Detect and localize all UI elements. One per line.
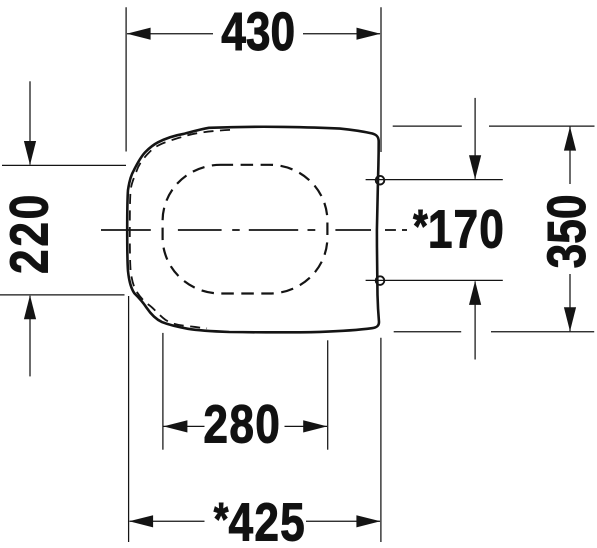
horizontal centerline (dash-dot): [101, 229, 407, 231]
dimension 280: extension lines: [163, 333, 328, 450]
dimension 350: dimension line: [569, 127, 571, 184]
dimension 350: arrowheads: [564, 127, 576, 151]
dimension 220: arrowheads: [24, 141, 36, 165]
dimension *170: dimension lines through hinges: [366, 98, 503, 360]
seat ring hidden edge (dashed): [130, 130, 230, 328]
hinge circle bottom: [376, 276, 385, 285]
dimension 280: dimension line: [164, 425, 205, 427]
dimension 430: dimension line: [127, 33, 213, 35]
seat lid outer outline: [127, 127, 379, 333]
dimension 430: arrowheads: [127, 28, 151, 40]
svg-text:*425: *425: [214, 492, 306, 548]
dimension *425: arrowheads: [129, 515, 153, 527]
dimension *425: extension lines: [129, 296, 381, 542]
svg-text:430: 430: [221, 2, 295, 62]
dimension *425: dimension line: [130, 520, 205, 522]
dimension 280: arrowheads: [163, 420, 187, 432]
dimension 350: extension lines: [393, 126, 595, 332]
svg-text:220: 220: [0, 192, 60, 274]
svg-text:350: 350: [537, 195, 597, 269]
svg-text:*170: *170: [413, 199, 505, 259]
dimension 220: arrow shafts: [29, 81, 31, 164]
dimension *170: arrow shafts: [474, 98, 476, 179]
dimension 220: extension lines: [0, 81, 126, 376]
dimension 430: extension lines: [126, 7, 381, 152]
dimension *170: arrowheads: [469, 155, 481, 179]
svg-text:280: 280: [203, 394, 281, 454]
seat opening inner ring (dashed): [163, 165, 328, 294]
hinge circle top: [376, 176, 385, 185]
